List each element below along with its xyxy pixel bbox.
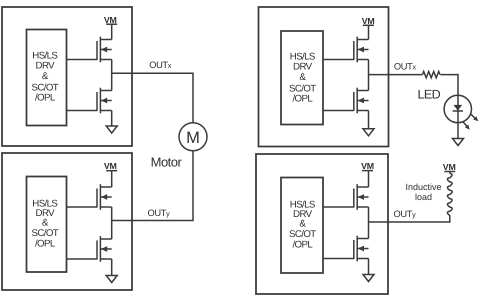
svg-text:&: & bbox=[299, 218, 306, 229]
driver block 3 control logic label "HS/LS DRV & SC/OT /OPL" bbox=[289, 51, 316, 104]
wire gate of high-side (block 2) bbox=[67, 206, 98, 208]
svg-text:&: & bbox=[42, 71, 49, 82]
wire gate of low-side (block 1) bbox=[67, 110, 98, 112]
svg-text:VM: VM bbox=[104, 161, 117, 171]
transistor low-side NMOS (block 3) bbox=[354, 88, 369, 114]
wire half-bridge junction (block 4) bbox=[368, 207, 370, 239]
LED light arrow 2 bbox=[463, 122, 470, 130]
svg-text:OUTx: OUTx bbox=[149, 60, 172, 70]
driver block 3 (top-right) outer box bbox=[259, 7, 389, 147]
resistor R1 bbox=[422, 72, 440, 78]
inductor L1 coil bbox=[447, 174, 452, 216]
ground (block 3) bbox=[363, 129, 374, 136]
driver block 2 control logic box bbox=[27, 177, 67, 273]
VM supply tick (block 4) bbox=[362, 170, 373, 172]
LED D1 diode triangle bbox=[454, 105, 463, 111]
LED D1 anode wire through circle bbox=[457, 95, 459, 122]
ground (LED) bbox=[453, 139, 464, 146]
wire low-side source to ground (block 2) bbox=[111, 259, 113, 276]
svg-text:OUTx: OUTx bbox=[394, 61, 417, 71]
wire VM to high-side drain (block 2) bbox=[111, 171, 113, 187]
wire gate of high-side (block 4) bbox=[323, 206, 354, 208]
wire gate of high-side (block 1) bbox=[67, 59, 98, 61]
svg-text:/OPL: /OPL bbox=[35, 93, 56, 104]
wire VM to high-side drain (block 3) bbox=[368, 25, 370, 39]
svg-text:Inductive: Inductive bbox=[405, 182, 441, 192]
svg-text:Motor: Motor bbox=[151, 155, 183, 170]
wire resistor to LED bbox=[440, 75, 458, 96]
wire VM to high-side drain (block 4) bbox=[368, 171, 370, 187]
svg-text:VM: VM bbox=[361, 161, 374, 171]
LED D1 cathode bar bbox=[453, 110, 463, 112]
VM supply tick (block 3) bbox=[363, 24, 374, 26]
transistor low-side NMOS (block 2) bbox=[97, 236, 112, 262]
driver block 1 control logic label "HS/LS DRV & SC/OT /OPL" bbox=[31, 50, 58, 103]
wire OUTx to resistor (right) bbox=[369, 74, 423, 76]
LED D1 circle bbox=[444, 95, 471, 122]
VM supply tick (inductor) bbox=[444, 171, 455, 173]
wire VM to high-side drain (block 1) bbox=[111, 24, 113, 39]
motor M1 circle bbox=[179, 123, 207, 151]
wire OUTy to motor (left) bbox=[112, 151, 193, 221]
wire OUTx to motor (left) bbox=[112, 73, 193, 123]
transistor low-side NMOS (block 1) bbox=[97, 88, 112, 114]
svg-text:DRV: DRV bbox=[36, 61, 56, 72]
driver block 3 control logic box bbox=[281, 31, 323, 125]
svg-text:load: load bbox=[415, 192, 432, 202]
svg-text:LED: LED bbox=[418, 88, 441, 102]
transistor high-side NMOS (block 1) bbox=[97, 37, 112, 63]
wire gate of low-side (block 2) bbox=[67, 258, 98, 260]
wire low-side source to ground (block 1) bbox=[111, 111, 113, 127]
wire inductor top to VM bbox=[449, 172, 451, 174]
wire gate of high-side (block 3) bbox=[323, 59, 354, 61]
transistor high-side NMOS (block 3) bbox=[354, 37, 369, 63]
wire gate of low-side (block 4) bbox=[323, 258, 354, 260]
wire half-bridge junction (block 3) bbox=[368, 60, 370, 91]
driver block 2 (bottom-left) outer box bbox=[2, 153, 132, 290]
svg-text:/OPL: /OPL bbox=[292, 239, 313, 250]
driver block 4 control logic label "HS/LS DRV & SC/OT /OPL" bbox=[289, 199, 316, 250]
driver block 4 (bottom-right) outer box bbox=[256, 154, 388, 294]
driver block 1 control logic box bbox=[27, 30, 67, 126]
wire OUTy to inductor (right) bbox=[369, 215, 450, 222]
wire half-bridge junction (block 1) bbox=[111, 60, 113, 91]
driver block 1 (top-left) outer box bbox=[2, 7, 132, 146]
svg-text:/OPL: /OPL bbox=[292, 94, 313, 105]
svg-text:VM: VM bbox=[104, 15, 117, 25]
svg-text:&: & bbox=[42, 217, 49, 228]
svg-text:VM: VM bbox=[362, 16, 375, 26]
svg-text:&: & bbox=[299, 72, 306, 83]
svg-text:/OPL: /OPL bbox=[35, 238, 56, 249]
svg-text:DRV: DRV bbox=[293, 62, 313, 73]
wire LED cathode to ground bbox=[457, 123, 459, 139]
wire half-bridge junction (block 2) bbox=[111, 207, 113, 239]
driver block 4 control logic box bbox=[281, 178, 323, 274]
driver block 2 control logic label "HS/LS DRV & SC/OT /OPL" bbox=[31, 198, 58, 249]
ground (block 4) bbox=[363, 275, 374, 282]
wire gate of low-side (block 3) bbox=[323, 110, 354, 112]
ground (block 1) bbox=[106, 126, 117, 133]
transistor low-side NMOS (block 4) bbox=[354, 236, 369, 262]
wire low-side source to ground (block 3) bbox=[368, 111, 370, 129]
wire low-side source to ground (block 4) bbox=[368, 259, 370, 275]
svg-text:OUTy: OUTy bbox=[394, 209, 417, 219]
svg-text:OUTy: OUTy bbox=[148, 208, 171, 218]
svg-text:VM: VM bbox=[443, 162, 456, 172]
transistor high-side NMOS (block 2) bbox=[97, 184, 112, 210]
VM supply tick (block 1) bbox=[106, 23, 117, 25]
ground (block 2) bbox=[106, 276, 117, 283]
LED light arrow 1 bbox=[470, 114, 478, 121]
VM supply tick (block 2) bbox=[106, 170, 117, 172]
svg-text:M: M bbox=[186, 129, 200, 147]
transistor high-side NMOS (block 4) bbox=[354, 184, 369, 210]
